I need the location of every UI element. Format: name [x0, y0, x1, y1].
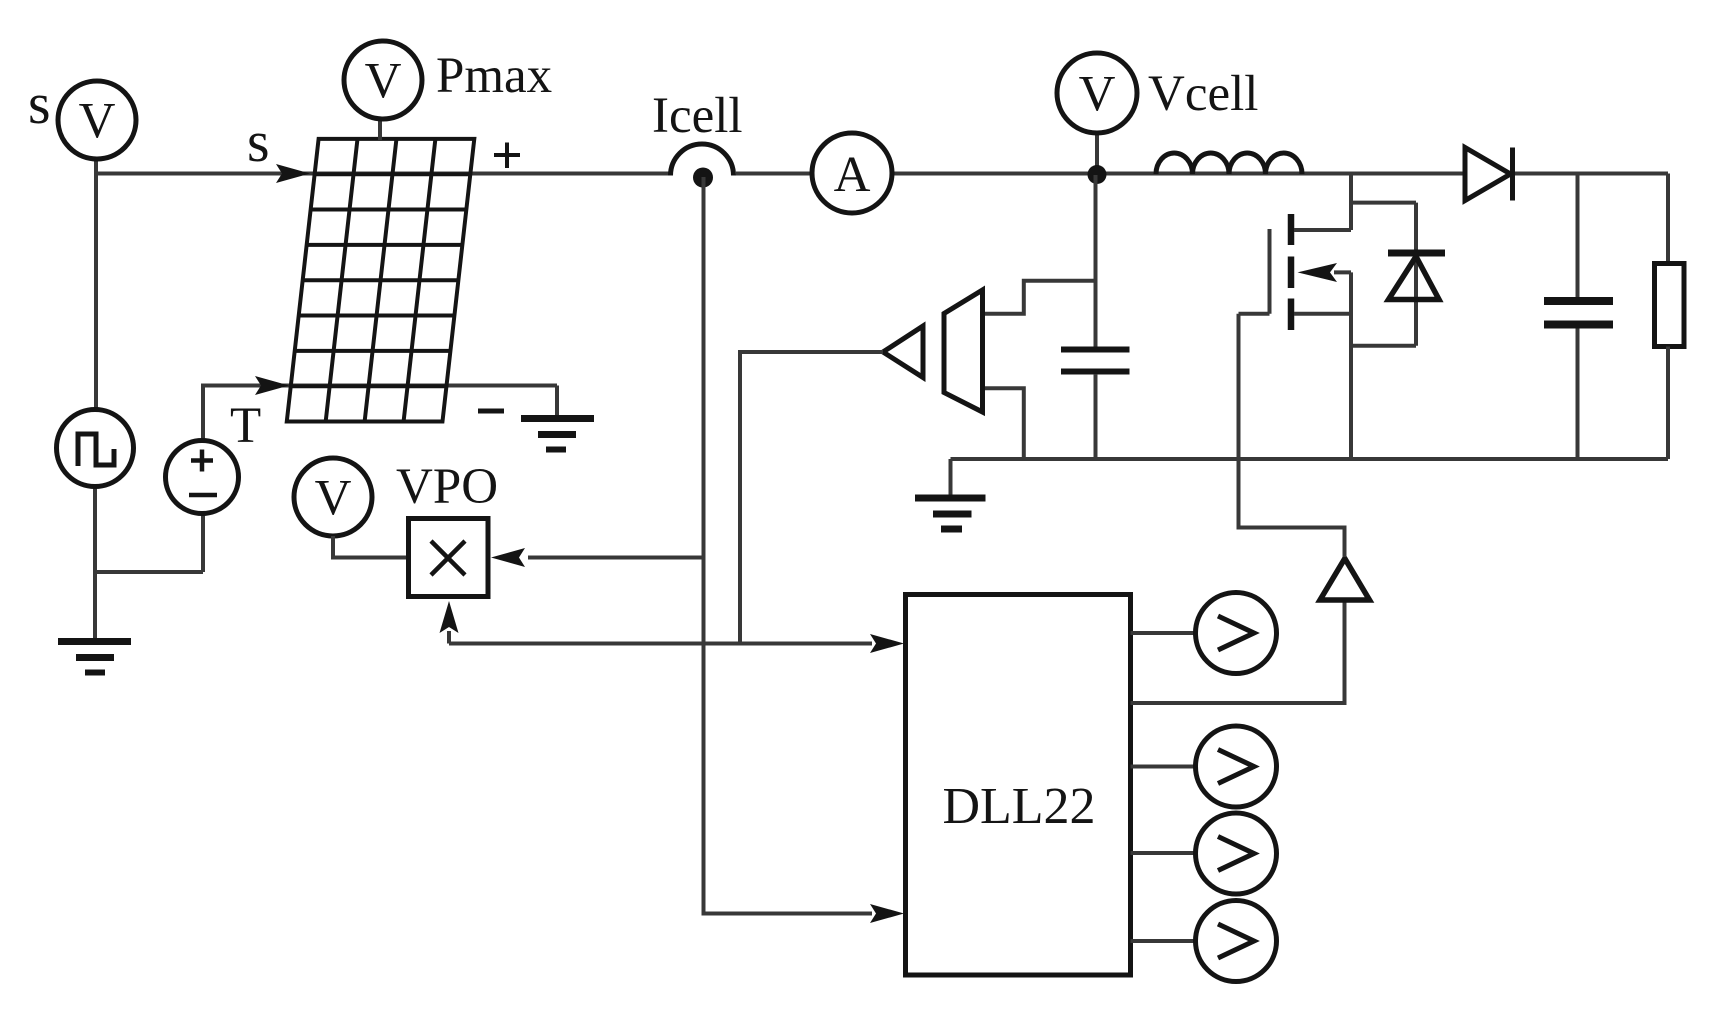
wire load top: [1666, 174, 1670, 264]
arrow into s input: [276, 164, 310, 183]
probe scope 1: [1196, 593, 1277, 674]
wire pulse source to ground: [93, 487, 97, 641]
wire gate buffer to mosfet gate: [1239, 314, 1345, 557]
wire T input horizontal: [203, 384, 557, 388]
wire switch top pin: [983, 281, 1096, 314]
voltmeter VPO: [294, 458, 372, 536]
svg-text:V: V: [79, 94, 116, 150]
voltmeter Vcell: [1057, 53, 1137, 133]
wire mosfet drain to top: [1349, 174, 1353, 231]
wire load bottom: [1666, 347, 1670, 460]
voltmeter Pmax: [344, 41, 422, 119]
wire multiplier bottom input: [447, 631, 451, 644]
probe scope 2: [1196, 726, 1277, 807]
solar panel array: [287, 139, 475, 422]
svg-text:T: T: [230, 398, 261, 454]
node Vcell junction dot: [1088, 165, 1107, 184]
body diode vertical: [1414, 203, 1418, 346]
wire multiplier right input: [528, 556, 704, 560]
multiplier block: [409, 519, 489, 597]
diode D1: [1465, 148, 1511, 201]
wire mosfet source to ground bus: [1349, 272, 1353, 459]
pulse source V1: [57, 410, 134, 487]
label plus (panel): [494, 143, 520, 169]
wire Vcell node down to capacitor: [1094, 175, 1098, 348]
wire Icell sense down: [704, 177, 873, 914]
wire main top bus left: [96, 172, 670, 176]
label minus (panel): [478, 409, 504, 414]
capacitor Ccell: [1061, 347, 1130, 353]
dc source T: [166, 441, 239, 514]
mosfet Q1 drain stub: [1294, 228, 1351, 232]
wire mosfet gate lead: [1239, 312, 1270, 316]
mosfet Q1 gate line: [1268, 229, 1272, 314]
svg-text:Icell: Icell: [652, 88, 743, 144]
arrow into DLL22 input 1: [870, 634, 904, 653]
arrow into DLL22 input 2: [870, 904, 904, 923]
wire DLL22 output stub 3: [1131, 765, 1197, 769]
svg-text:V: V: [315, 471, 352, 527]
ammeter A: [812, 133, 892, 213]
ground (mid): [915, 495, 986, 502]
wire dc source top lead to T input: [203, 386, 258, 441]
svg-text:V: V: [365, 54, 402, 110]
probe scope 3: [1196, 813, 1277, 894]
buffer sensor triangle: [883, 326, 923, 378]
wire DLL22 output stub 1: [1131, 631, 1197, 635]
wire Vcell meter lead: [1095, 133, 1099, 176]
arrow into T input: [255, 376, 289, 395]
svg-text:VPO: VPO: [396, 459, 498, 515]
wire output cap top: [1576, 174, 1580, 298]
wire sensor output to control: [740, 352, 883, 644]
wire main top bus right: [1514, 172, 1668, 176]
current probe Icell arc: [671, 144, 734, 176]
arrow into multiplier right: [491, 548, 525, 567]
wire left column vertical: [94, 158, 98, 409]
svg-text:DLL22: DLL22: [942, 778, 1095, 835]
wire panel minus to ground: [555, 386, 559, 418]
wire DLL22 output stub 5: [1131, 939, 1197, 943]
wire VPO meter to multiplier: [333, 536, 409, 558]
ground (under panel minus): [521, 415, 594, 422]
block DLL22: [906, 595, 1131, 976]
svg-text:A: A: [834, 147, 871, 203]
wire bottom link to dc source: [95, 514, 203, 572]
probe scope 4: [1196, 901, 1277, 982]
mosfet Q1 source stub: [1294, 312, 1351, 316]
svg-text:Pmax: Pmax: [436, 48, 552, 104]
svg-text:V: V: [1079, 67, 1116, 123]
svg-text:Vcell: Vcell: [1148, 66, 1258, 122]
node Icell dot: [693, 168, 713, 188]
wire Pmax meter lead: [378, 119, 382, 140]
wire output cap bottom: [1576, 329, 1580, 460]
body diode D2: [1388, 250, 1445, 257]
wire control bus to DLL22 input 1: [449, 642, 872, 646]
wire main top bus middle: [736, 172, 1465, 176]
ground (bottom left): [58, 638, 131, 645]
switch S1 trapezoid: [944, 290, 983, 412]
wire capacitor Ccell bottom: [1094, 374, 1098, 459]
wire body diode bottom branch: [1351, 344, 1416, 348]
svg-text:s: s: [247, 109, 270, 174]
wire switch bottom pin: [983, 388, 1024, 459]
wire ground stem (mid): [949, 459, 953, 495]
wire DLL22 gate output: [1131, 602, 1345, 704]
wire DLL22 output stub 4: [1131, 851, 1197, 855]
gate buffer triangle: [1320, 559, 1370, 601]
mosfet Q1 body arrow: [1334, 270, 1351, 274]
svg-text:s: s: [28, 71, 51, 136]
wire body diode top branch: [1351, 201, 1416, 205]
voltmeter S circle: [58, 81, 136, 159]
capacitor Cout: [1544, 297, 1613, 305]
inductor L: [1156, 153, 1302, 174]
wire bottom ground bus: [951, 457, 1669, 461]
resistor R load: [1655, 264, 1685, 347]
mosfet Q1 channel bars: [1288, 214, 1295, 330]
arrow into multiplier bottom: [440, 601, 459, 633]
